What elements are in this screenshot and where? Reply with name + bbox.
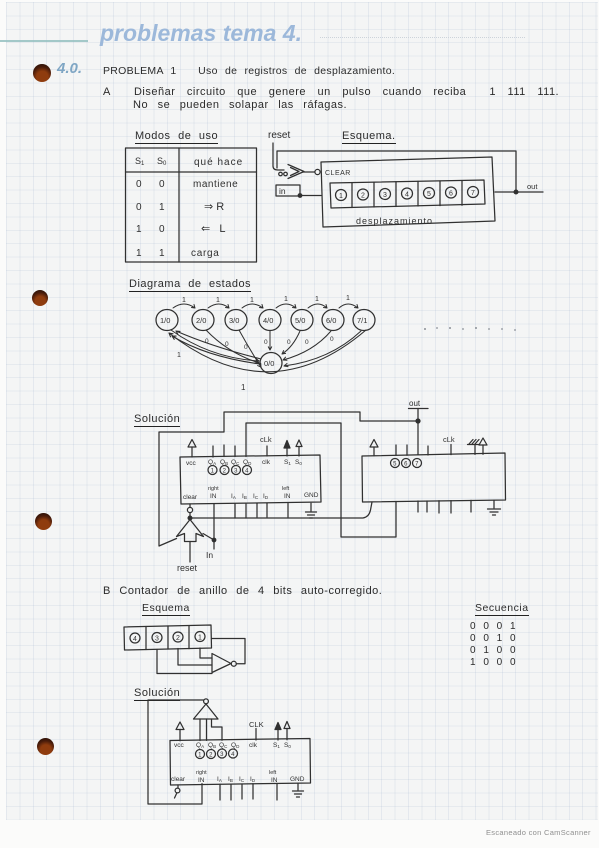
svg-text:0: 0 [136, 202, 142, 213]
pin numbers 1-4 U4 [196, 749, 238, 759]
gate G3 (NOR arrow) [212, 654, 236, 673]
pin clk U4 [255, 729, 257, 741]
pin QB U2 [223, 445, 225, 457]
pin clear U4 stub [175, 785, 180, 798]
svg-text:4/0: 4/0 [263, 316, 273, 325]
wire gate G2 out to U3 clear [190, 502, 372, 518]
svg-text:cLk: cLk [443, 435, 455, 444]
wire Q1 to gate [200, 648, 212, 658]
svg-text:cLk: cLk [260, 435, 272, 444]
svg-text:clear: clear [171, 776, 186, 783]
pin numbers 1-4 [208, 466, 252, 475]
svg-text:desplazamiento: desplazamiento [356, 216, 433, 226]
svg-text:4: 4 [133, 636, 137, 643]
pins IA-ID U4 [220, 784, 253, 800]
svg-text:in: in [279, 186, 286, 196]
wire feedback top (out to gate) [277, 151, 516, 192]
svg-text:IB: IB [242, 493, 247, 500]
svg-text:3/0: 3/0 [229, 316, 239, 325]
svg-text:reset: reset [177, 563, 198, 573]
register U1 shift register box [321, 157, 495, 227]
svg-text:1: 1 [136, 224, 142, 235]
pin stubs U3 bottom [418, 500, 471, 513]
svg-text:GND: GND [290, 776, 305, 783]
svg-text:1: 1 [136, 248, 142, 259]
svg-text:0: 0 [136, 179, 142, 190]
pin S1 U2 [284, 441, 290, 457]
svg-text:6: 6 [449, 191, 453, 198]
svg-text:⇒ R: ⇒ R [204, 201, 224, 213]
pin S U3 triangle [479, 438, 487, 454]
pin clear U2 with bubble [187, 504, 192, 518]
pin clk U2 [266, 446, 268, 456]
svg-text:1: 1 [250, 297, 254, 304]
svg-text:3: 3 [155, 636, 159, 643]
register U4 (ring counter) [170, 739, 311, 786]
pin GND U2 + ground [306, 503, 317, 518]
svg-text:1: 1 [315, 296, 319, 303]
svg-text:0: 0 [159, 224, 165, 235]
node in [276, 185, 321, 197]
wire gate G3 to serial input [212, 639, 246, 664]
wire QC to gate G4 [212, 719, 223, 740]
svg-text:⇐ L: ⇐ L [201, 223, 226, 235]
node out (solution) [409, 399, 429, 455]
svg-text:S1: S1 [273, 742, 280, 749]
vcc pin U3 [370, 440, 378, 456]
svg-text:3: 3 [383, 192, 387, 199]
pins IA-ID U2 [235, 504, 267, 518]
svg-text:out: out [527, 182, 538, 191]
pin left-IN U2 [287, 503, 289, 517]
transition arcs "0" to state 0/0 [171, 330, 361, 367]
svg-text:1: 1 [177, 352, 181, 359]
vcc pin U4 [176, 722, 184, 741]
svg-text:7: 7 [471, 190, 475, 197]
svg-text:2/0: 2/0 [196, 316, 206, 325]
svg-text:S0: S0 [284, 742, 291, 749]
svg-text:left: left [269, 770, 277, 776]
svg-text:qué hace: qué hace [194, 157, 243, 168]
svg-text:right: right [208, 486, 219, 492]
svg-text:left: left [282, 486, 290, 492]
pin QC U2 [234, 446, 236, 457]
label clk U3 [443, 435, 455, 444]
svg-text:mantiene: mantiene [193, 179, 238, 190]
pin clk U3 [450, 445, 452, 455]
svg-text:S0: S0 [157, 156, 167, 167]
pin stubs U3 top [396, 445, 428, 455]
pin GND U3 + ground [488, 500, 501, 515]
flip-flop cells 1-7 [330, 180, 485, 208]
svg-text:1/0: 1/0 [160, 316, 170, 325]
svg-text:S1: S1 [135, 156, 145, 167]
svg-text:2: 2 [361, 193, 365, 200]
svg-text:IN: IN [210, 493, 217, 500]
svg-text:QD: QD [231, 742, 240, 749]
svg-text:IC: IC [253, 493, 259, 500]
svg-text:6/0: 6/0 [326, 316, 336, 325]
wire QA to gate G4 [199, 719, 201, 741]
svg-text:1: 1 [241, 383, 246, 392]
svg-text:QA: QA [196, 742, 204, 749]
wire Q2 to gate [178, 649, 212, 666]
pin S0 U2 [296, 440, 302, 456]
state nodes 1/0..7/1 [156, 310, 375, 331]
svg-text:0: 0 [244, 344, 248, 351]
gate G1 (clear pulse gate) [279, 165, 320, 179]
svg-text:IB: IB [228, 776, 233, 783]
svg-text:1: 1 [182, 297, 186, 304]
svg-text:1: 1 [159, 248, 165, 259]
svg-text:IA: IA [217, 776, 222, 783]
svg-text:vcc: vcc [186, 460, 197, 467]
svg-text:1: 1 [346, 295, 350, 302]
svg-text:CLEAR: CLEAR [325, 170, 351, 177]
vcc pin U2 [188, 440, 196, 458]
gate G4 (correction gate, arrow up) [194, 699, 219, 719]
wire G4 out to right-IN loop [148, 700, 204, 804]
mode table [126, 148, 257, 262]
wire QD to U3 serial in [246, 423, 396, 537]
pin S0 U4 [284, 722, 290, 740]
svg-text:clear: clear [183, 494, 198, 501]
register U2 (74194 left) [180, 455, 321, 504]
pin S1 U4 [275, 723, 281, 741]
label CLK U4 [249, 720, 264, 729]
svg-text:clk: clk [249, 742, 258, 749]
svg-text:right: right [196, 770, 207, 776]
svg-text:CLK: CLK [249, 720, 264, 729]
svg-text:7/1: 7/1 [357, 316, 367, 325]
svg-text:0/0: 0/0 [264, 359, 274, 368]
gate G2 (reset OR gate, arrow up) [177, 520, 204, 542]
pin right-IN U2 / node In [203, 504, 216, 560]
svg-text:0: 0 [287, 339, 291, 346]
svg-text:0: 0 [225, 341, 229, 348]
node clear junction [188, 516, 192, 520]
wire out-feedback (out to gate G2) [159, 412, 418, 546]
ring counter cells 4-1 [124, 625, 212, 650]
svg-text:2: 2 [176, 635, 180, 642]
svg-text:QC: QC [219, 742, 228, 749]
svg-text:In: In [206, 550, 213, 560]
svg-text:0: 0 [305, 339, 309, 346]
svg-text:1: 1 [216, 297, 220, 304]
transition arc 0/0 -> 1/0 [172, 331, 261, 364]
register U3 (74194 right) [362, 453, 506, 502]
node out (esquema) [495, 182, 543, 194]
wire QB to gate G4 [206, 719, 208, 740]
transition arcs "1" between adjacent states [173, 295, 358, 308]
svg-text:5: 5 [427, 191, 431, 198]
svg-text:vcc: vcc [174, 742, 185, 749]
svg-text:1: 1 [198, 635, 202, 642]
svg-text:carga: carga [191, 248, 220, 259]
svg-text:IC: IC [239, 776, 245, 783]
svg-text:1: 1 [339, 193, 343, 200]
wire Q3 to gate [157, 650, 212, 674]
svg-text:clk: clk [262, 459, 271, 466]
svg-text:0: 0 [264, 339, 268, 346]
svg-text:ID: ID [250, 776, 256, 783]
state node 0/0 [260, 353, 282, 374]
svg-text:1: 1 [159, 202, 165, 213]
svg-text:QB: QB [208, 742, 216, 749]
pin GND U4 + ground [293, 783, 304, 797]
svg-text:5/0: 5/0 [295, 316, 305, 325]
label clk U2 [260, 435, 272, 444]
svg-text:GND: GND [304, 492, 319, 499]
svg-text:S1: S1 [284, 459, 291, 466]
svg-text:S0: S0 [295, 459, 302, 466]
svg-text:IA: IA [231, 493, 236, 500]
svg-text:ID: ID [263, 493, 269, 500]
pin numbers 5-7 [391, 459, 422, 468]
svg-text:out: out [409, 399, 421, 408]
svg-text:1: 1 [284, 296, 288, 303]
svg-text:IN: IN [284, 493, 291, 500]
svg-text:0: 0 [159, 179, 165, 190]
pin left-IN U4 [276, 784, 278, 801]
trailing dots [424, 327, 516, 331]
svg-text:0: 0 [330, 336, 334, 343]
wire reset input [177, 542, 198, 574]
pin QA U2 [212, 446, 214, 457]
pin enable U3 hatch [468, 440, 480, 455]
transition arc 7/1 -> 1/0 [169, 330, 366, 392]
wire reset to gate [273, 143, 284, 170]
svg-text:IN: IN [198, 777, 205, 784]
svg-text:4: 4 [405, 192, 409, 199]
